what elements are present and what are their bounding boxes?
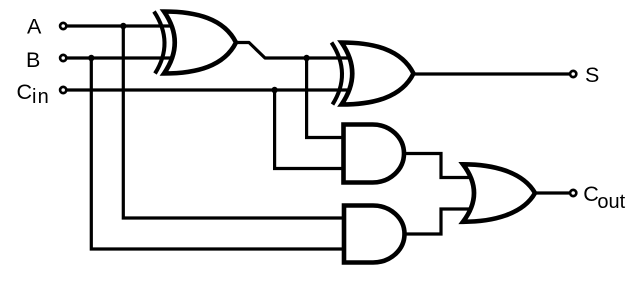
svg-text:Cout: Cout [583,182,625,213]
wire AND2 output to OR lower input [405,209,482,234]
wire B branch down to AND2 lower input [91,58,347,249]
and gate U3 ((A xor B) and Cin) [344,125,405,183]
svg-text:S: S [585,63,599,87]
and gate U4 (A and B) [344,206,405,263]
or gate U5 (carry out) [463,164,535,222]
input terminal B [60,55,66,61]
wire Cin branch down to AND1 lower input [275,90,346,169]
svg-text:A: A [27,15,42,39]
output terminal Cout [570,190,576,196]
junction on XOR1 output wire [303,55,309,61]
wire OR output to Cout terminal [535,191,569,194]
wire A branch down to AND2 upper input [123,26,347,218]
wire XOR2 output to S terminal [413,72,569,75]
svg-text:B: B [26,48,40,72]
xor gate U1 (A xor B) [154,12,236,74]
input terminal A [60,23,66,29]
wire AND1 output to OR upper input [404,154,482,178]
wire XOR1 output jog to XOR2 upper input [236,43,352,59]
junction on A wire [120,23,126,29]
junction on B wire [88,55,94,61]
junction on Cin wire [271,87,277,93]
svg-text:Cin: Cin [17,80,51,108]
xor gate U2 (sum = A xor B xor Cin) [332,43,414,105]
output terminal S [570,71,576,77]
wire XOR1 output branch down to AND1 upper input [307,58,346,138]
input terminal Cin [60,87,66,93]
wire B input horizontal [67,56,187,59]
wire Cin input horizontal [67,88,353,91]
wire A input horizontal [67,24,187,27]
